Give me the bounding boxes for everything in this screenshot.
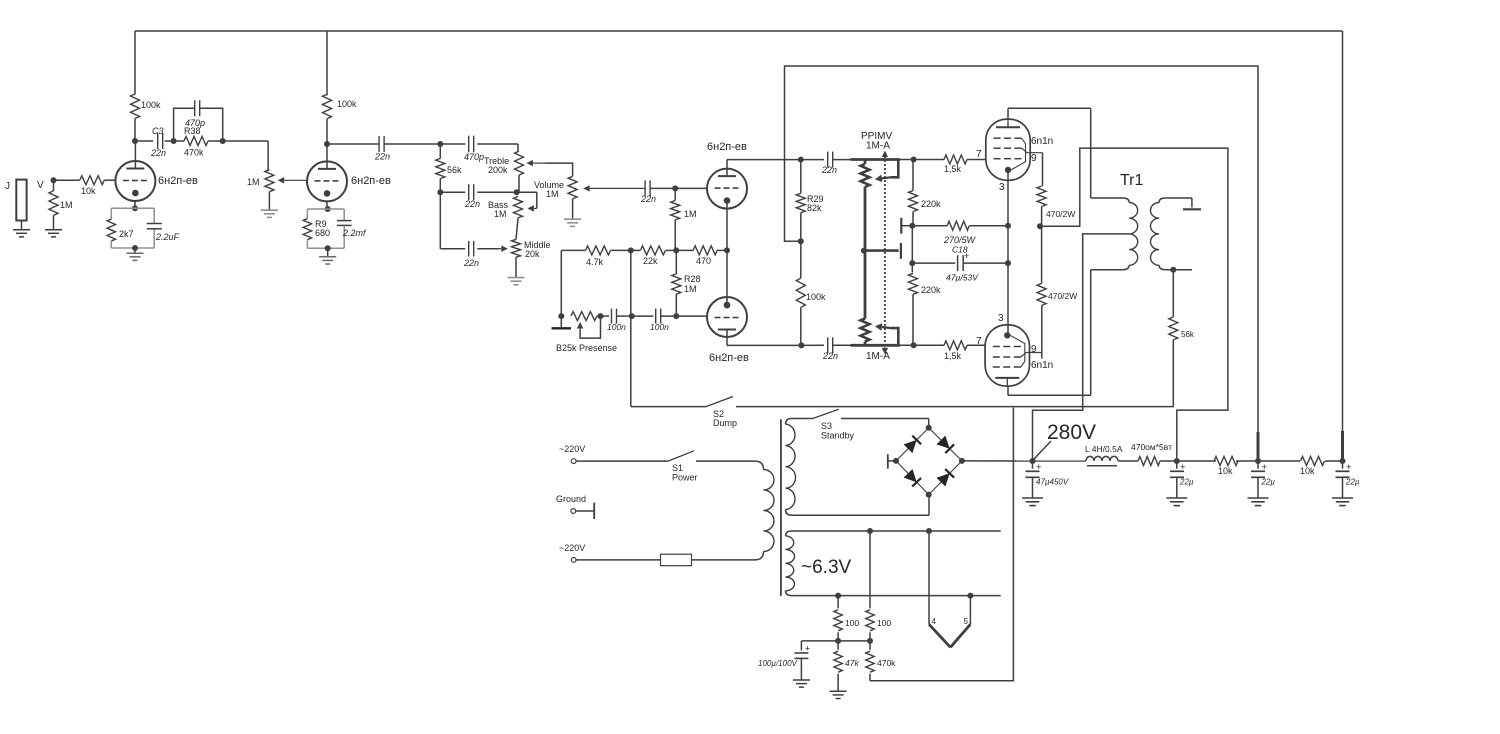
svg-text:9: 9 (1031, 344, 1037, 355)
capacitor 22n (mid) (440, 192, 499, 268)
capacitor 2.2mf (337, 221, 367, 238)
svg-text:7: 7 (976, 149, 982, 160)
svg-text:56k: 56k (447, 165, 462, 175)
wire B+ rail (962, 460, 1343, 462)
svg-text:22µ: 22µ (1345, 478, 1360, 487)
label 280V (1034, 421, 1096, 459)
label PPIMV (861, 131, 892, 152)
potentiometer Bass 1M (488, 196, 523, 219)
wire R29 top node row (801, 159, 824, 161)
resistor 47k (834, 641, 860, 691)
wire middle bottom (515, 257, 517, 277)
svg-text:22µ: 22µ (1179, 478, 1194, 487)
input jack J (5, 180, 27, 221)
svg-text:220k: 220k (921, 285, 941, 295)
wire to 1M pot (223, 141, 268, 170)
svg-text:2k7: 2k7 (119, 229, 134, 239)
svg-text:4: 4 (932, 617, 937, 626)
ground (Volume pot) (564, 219, 581, 226)
svg-text:1M: 1M (247, 177, 260, 187)
ground (1M pot) (261, 210, 278, 217)
svg-text:+: + (964, 251, 969, 261)
svg-text:1M: 1M (684, 284, 697, 294)
ground (100µ cap) (793, 680, 810, 687)
pot presence wiper (577, 316, 601, 338)
resistor R28 1M (672, 250, 701, 316)
resistor 470 (676, 246, 727, 266)
capacitor 22n (MV top) (821, 152, 851, 175)
svg-text:C3: C3 (152, 126, 164, 136)
bridge frame (896, 428, 962, 495)
node C18 row (909, 226, 915, 273)
svg-text:1M-A: 1M-A (866, 141, 890, 152)
capacitor C3 22n (135, 126, 177, 158)
svg-text:20k: 20k (525, 249, 540, 259)
ground (22µ 2nd) (1248, 498, 1269, 506)
resistor 10k (2nd) (1300, 457, 1325, 477)
node B+ 2 (1174, 458, 1180, 464)
node Tr1 secondary out (1170, 267, 1192, 273)
resistor R38 470k (174, 126, 223, 158)
terminal Ground (556, 494, 594, 519)
transformer 6.3V winding (786, 531, 795, 596)
switch S3 Standby (792, 409, 929, 440)
svg-text:Tr1: Tr1 (1120, 172, 1144, 189)
svg-text:3: 3 (998, 313, 1004, 324)
potentiometer MV 1M-A (bottom) (851, 251, 901, 346)
svg-text:47µ/53V: 47µ/53V (946, 273, 979, 283)
capacitor 470p (bypass) (174, 100, 226, 144)
svg-text:100k: 100k (806, 292, 826, 302)
triode V1b 6н2п-ев (307, 161, 391, 201)
svg-text:82k: 82k (807, 203, 822, 213)
svg-text:Standby: Standby (821, 431, 855, 441)
svg-text:5: 5 (964, 617, 969, 626)
capacitor 22µ (1st) (1170, 461, 1194, 498)
connector pin 4 (929, 531, 950, 647)
svg-text:680: 680 (315, 228, 330, 238)
ground (V1a cathode) (127, 248, 144, 260)
svg-text:100k: 100k (141, 100, 161, 110)
wire bass to middle (516, 218, 518, 239)
svg-text:470k: 470k (184, 148, 204, 158)
node NFB junction (628, 247, 634, 253)
svg-text:470p: 470p (185, 118, 205, 128)
potentiometer B25k Presense (556, 312, 617, 353)
pot Volume wiper (583, 185, 645, 191)
svg-text:R28: R28 (684, 274, 701, 284)
wire bridge top corner (926, 419, 932, 431)
svg-text:100: 100 (845, 618, 859, 628)
wire V2a cathode (724, 204, 730, 254)
inductor L 4H/0.5A (1085, 444, 1123, 466)
svg-text:1M: 1M (60, 200, 73, 210)
wire V1b plate node (324, 119, 330, 169)
pot Bass wiper (527, 192, 536, 211)
svg-text:22k: 22k (643, 256, 658, 266)
wire bottom tube plate (1008, 270, 1091, 396)
wire humdinger node row (801, 638, 873, 644)
svg-text:270/5W: 270/5W (943, 235, 977, 245)
svg-text:V: V (37, 180, 44, 191)
svg-text:280V: 280V (1047, 421, 1096, 444)
svg-text:470: 470 (696, 256, 711, 266)
svg-text:B25k Presense: B25k Presense (556, 343, 617, 353)
resistor 470ом*5вт (1131, 442, 1172, 466)
wire HV bottom to bridge (792, 495, 930, 516)
capacitor C18 47µ/53V (912, 251, 1011, 283)
wire V2b cathode (724, 250, 730, 308)
node dump tap (629, 313, 635, 319)
resistor 1.5k (bottom grid stopper) (944, 341, 985, 361)
pot Middle wiper (499, 246, 508, 252)
svg-text:~220V: ~220V (559, 444, 585, 454)
wire Tr1 center tap (1033, 234, 1130, 461)
svg-text:Ground: Ground (556, 494, 586, 504)
svg-text:S1: S1 (672, 463, 683, 473)
capacitor R9 cathode box V1b (307, 202, 344, 252)
svg-text:7: 7 (976, 336, 982, 347)
svg-text:470ом*5вт: 470ом*5вт (1131, 442, 1172, 452)
resistor 56k (slope) (436, 144, 462, 192)
wire pot bottom (268, 192, 270, 210)
capacitor 100µ/100V (758, 641, 810, 680)
svg-text:2.2uF: 2.2uF (155, 232, 180, 242)
diode D2 (top-right) (937, 436, 955, 454)
svg-text:Power: Power (672, 473, 698, 483)
wire V2a plate (727, 157, 804, 177)
resistor 100 (left humdinger) (834, 596, 860, 641)
wire bottom tube screen (1041, 305, 1043, 358)
svg-text:1,5k: 1,5k (944, 164, 962, 174)
node MV top right (900, 157, 944, 163)
svg-text:100k: 100k (337, 99, 357, 109)
pot Treble wiper (526, 160, 572, 176)
svg-text:+: + (805, 644, 810, 654)
svg-text:4.7k: 4.7k (586, 257, 604, 267)
wire screen supply line (1040, 148, 1228, 461)
wire 470k to dump line (870, 408, 1013, 681)
svg-text:1M-A: 1M-A (866, 351, 890, 362)
resistor 470/2W (top) (1037, 186, 1075, 229)
potentiometer Middle 20k (512, 239, 551, 259)
ground (Middle pot) (508, 278, 525, 285)
wire heater bottom (792, 593, 1001, 599)
svg-text:47µ450V: 47µ450V (1036, 478, 1069, 487)
resistor 220k (top) (909, 160, 942, 229)
ground (presence) (552, 313, 572, 328)
wire V1a plate node (132, 119, 138, 169)
svg-text:22n: 22n (821, 165, 837, 175)
svg-text:+: + (1346, 462, 1352, 473)
connector pin 5 (950, 596, 970, 648)
resistor 22k (631, 246, 680, 266)
ground (V1b cathode) (319, 248, 336, 264)
capacitor plate (MV mid) (900, 243, 902, 259)
svg-text:J: J (5, 181, 10, 192)
node bridge bottom (926, 492, 932, 498)
label ~6.3V (801, 557, 852, 578)
svg-text:2.2mf: 2.2mf (342, 228, 367, 238)
svg-text:S3: S3 (821, 421, 832, 431)
terminal ~220V (neutral) (559, 543, 585, 562)
svg-text:56k: 56k (1181, 330, 1195, 339)
transformer HV secondary (786, 419, 796, 516)
capacitor 22µ (3rd) (1336, 461, 1360, 498)
resistor 100k (V1a plate) (131, 94, 162, 119)
ground (Tr1 secondary) (1183, 198, 1201, 209)
svg-text:22n: 22n (640, 194, 656, 204)
ground (input 1M) (45, 230, 62, 237)
svg-text:100µ/100V: 100µ/100V (758, 659, 798, 668)
svg-text:22n: 22n (463, 258, 479, 268)
ground (47µ cap) (1022, 498, 1043, 506)
resistor 270/5W (912, 221, 1011, 254)
svg-text:~6.3V: ~6.3V (801, 557, 852, 578)
resistor 470k (heater ref) (866, 641, 896, 681)
resistor R9 680 (303, 219, 330, 240)
triode V1a 6н2п-ев (115, 161, 198, 201)
svg-text:6n1n: 6n1n (1031, 136, 1053, 147)
triode V2a 6н2п-ев (707, 141, 747, 209)
resistor 100 (right humdinger) (866, 531, 892, 641)
pot 1M wiper (278, 177, 306, 183)
capacitor 2k7 cathode network V1a (111, 201, 154, 251)
wire top tube screen (1042, 153, 1044, 186)
svg-text:+: + (1036, 462, 1042, 473)
svg-text:10k: 10k (1300, 466, 1315, 476)
wire dump line (631, 250, 706, 406)
resistor 1M (V2a grid leak) (671, 188, 697, 250)
node bridge left + terminal bar (888, 454, 899, 468)
resistor 10k (grid stopper) (54, 176, 116, 196)
wire V2b plate (727, 330, 804, 349)
svg-text:22n: 22n (822, 351, 838, 361)
svg-text:470p: 470p (464, 152, 484, 162)
svg-text:9: 9 (1031, 153, 1037, 164)
label Tr1 (1120, 172, 1144, 189)
transformer Tr1 secondary (1151, 198, 1192, 270)
svg-text:1M: 1M (684, 209, 697, 219)
diode D1 (left-top) (904, 436, 922, 454)
potentiometer Treble 200k (484, 144, 524, 175)
capacitor 22n (bass) (440, 184, 516, 209)
ground (jack) (13, 221, 30, 237)
svg-text:100n: 100n (607, 322, 626, 332)
svg-text:10k: 10k (1218, 466, 1233, 476)
wire heater top (792, 528, 1001, 534)
wire preamp B+ drop (right edge) (1340, 31, 1346, 464)
capacitor 470p (treble) (440, 136, 518, 162)
node 280V (1030, 458, 1036, 464)
node MV mid (861, 248, 899, 254)
capacitor 100n (1st) (597, 309, 632, 332)
svg-text:22n: 22n (374, 152, 390, 162)
node treble-bass junction (514, 175, 537, 195)
resistor 220k (bottom) (909, 273, 942, 348)
svg-text:1M: 1M (494, 209, 507, 219)
capacitor plate (220k mid) (901, 218, 912, 234)
fuse (576, 554, 755, 566)
triode V2b 6н2п-ев (inverted) (707, 297, 749, 364)
svg-text:470/2W: 470/2W (1046, 209, 1075, 219)
svg-text:100n: 100n (650, 322, 669, 332)
wire PI B+ feed line (785, 66, 1262, 464)
svg-text:6н2п-ев: 6н2п-ев (709, 352, 749, 364)
wire B+ top rail (135, 31, 1343, 96)
wire volume bottom (572, 199, 574, 219)
svg-text:47k: 47k (845, 658, 859, 668)
svg-text:+: + (1180, 462, 1186, 473)
wire top tube cathode (1007, 170, 1009, 263)
svg-text:6н2п-ев: 6н2п-ев (707, 141, 747, 153)
ground (47k) (830, 691, 847, 698)
resistor 1M (input) (49, 180, 73, 230)
node MV bottom right (900, 344, 944, 346)
potentiometer MV 1M-A (top) (851, 160, 901, 251)
capacitor 47µ450V (1026, 461, 1069, 498)
resistor 100k (V2b plate) (796, 241, 826, 345)
switch S1 Power (576, 451, 755, 483)
svg-text:220k: 220k (921, 199, 941, 209)
svg-text:1M: 1M (546, 189, 559, 199)
capacitor 2.2uF (147, 224, 180, 243)
resistor 100k (V1b plate) (323, 94, 358, 119)
capacitor 22n (MV bottom) (801, 337, 850, 361)
svg-text:470k: 470k (877, 658, 896, 668)
resistor 2k7 (107, 219, 133, 241)
transformer Tr1 primary (1091, 198, 1138, 270)
label 1M-A bottom (866, 351, 890, 362)
svg-text:L 4H/0.5A: L 4H/0.5A (1085, 444, 1123, 454)
switch S2 Dump (706, 397, 1174, 429)
node A (tone stack input) (437, 141, 443, 147)
svg-text:470/2W: 470/2W (1048, 291, 1077, 301)
pentode 6п1п (bottom) (976, 313, 1053, 386)
wire to V2a grid (675, 187, 707, 189)
svg-text:6н2п-ев: 6н2п-ев (158, 175, 198, 187)
pot MV bottom wiper (875, 323, 898, 345)
pot MV top wiper (875, 160, 898, 183)
node V (input) (37, 177, 57, 191)
svg-text:+: + (1262, 462, 1268, 473)
capacitor 100n (2nd) (632, 309, 677, 332)
pentode 6п1п (top) (976, 119, 1053, 193)
resistor 1.5k (top grid stopper) (944, 155, 985, 174)
diode D4 (bottom-right) (937, 469, 955, 487)
capacitor 22n (PI input) (640, 180, 678, 204)
resistor 4.7k (561, 246, 631, 316)
svg-text:22µ: 22µ (1261, 478, 1276, 487)
wire V2b grid row (673, 313, 707, 319)
svg-text:~220V: ~220V (559, 543, 585, 553)
resistor R29 82k (796, 160, 823, 245)
svg-text:3: 3 (999, 182, 1005, 193)
ground (22µ 1st) (1166, 498, 1187, 506)
svg-text:22n: 22n (150, 148, 166, 158)
potentiometer 1M (V1b grid) (247, 170, 274, 192)
svg-text:10k: 10k (81, 186, 96, 196)
ground (22µ 3rd) (1332, 498, 1353, 506)
potentiometer Volume 1M (534, 176, 577, 199)
resistor 56k (NFB) (1169, 270, 1195, 407)
svg-text:22n: 22n (464, 199, 480, 209)
svg-text:6н2п-ев: 6н2п-ев (351, 175, 391, 187)
capacitor 22n (to tone stack) (327, 136, 440, 162)
diode D3 (left-bottom) (904, 469, 922, 487)
resistor 10k (1st) (1214, 457, 1238, 477)
transformer mains primary (755, 461, 774, 560)
gang link (dotted) (882, 151, 888, 355)
capacitor 22µ (2nd) (1251, 461, 1275, 498)
svg-text:1,5k: 1,5k (944, 351, 962, 361)
resistor 470/2W (bottom) (1037, 226, 1077, 305)
svg-text:200k: 200k (488, 165, 508, 175)
wire bottom tube cathode (1007, 263, 1009, 336)
svg-text:Dump: Dump (713, 418, 737, 428)
svg-text:6n1n: 6n1n (1031, 360, 1053, 371)
svg-text:100: 100 (877, 618, 891, 628)
node bridge right (959, 458, 965, 464)
wire top tube plate (1008, 108, 1091, 198)
transformer core (780, 419, 782, 596)
terminal ~220V (live) (559, 444, 585, 464)
node B (bass/mid tap) (437, 189, 443, 195)
